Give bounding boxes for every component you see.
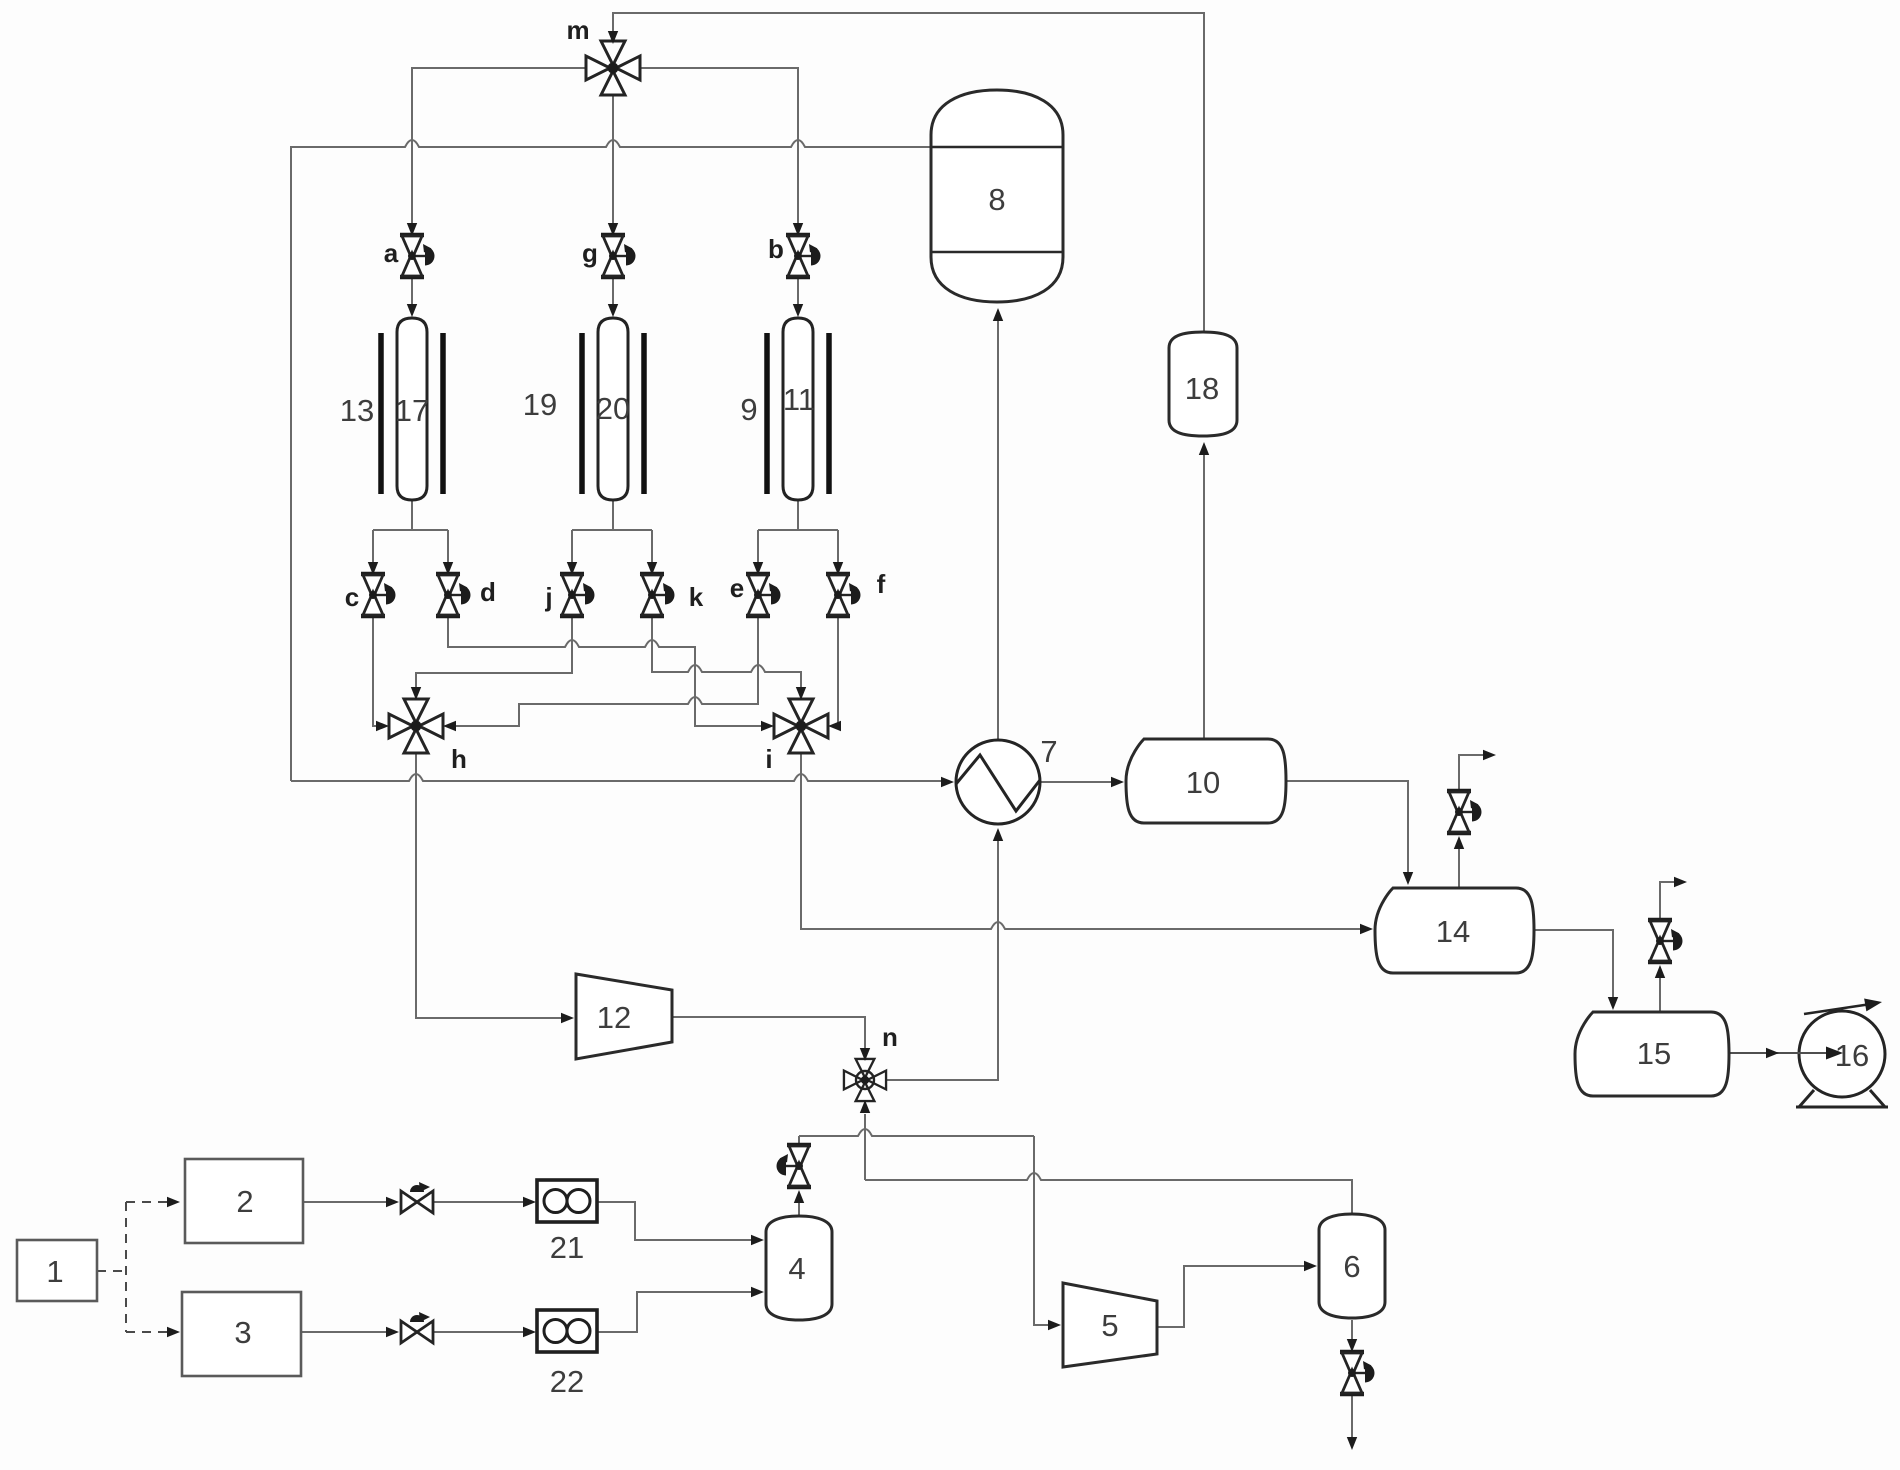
svg-text:7: 7	[1040, 734, 1057, 769]
wire: valve f to 4-way valve i right port	[838, 616, 840, 726]
arrow into valve b	[793, 223, 803, 236]
drain valve of vessel 6	[1340, 1352, 1375, 1394]
globe valve on line 3	[401, 1312, 433, 1343]
valve e	[746, 574, 781, 616]
vent valve on vessel 14	[1447, 791, 1482, 833]
arrow into valve n top	[860, 1048, 870, 1061]
svg-text:m: m	[566, 15, 589, 45]
wire: valve m right port to branch b corner	[640, 68, 798, 223]
wire: bypass line to vessel 6	[865, 1173, 1352, 1214]
arrow into globe valve of line 3	[386, 1327, 399, 1337]
box 1	[17, 1240, 97, 1301]
reactor 11 with heater 9	[767, 318, 829, 500]
wire: vessel 14 to vessel 15	[1534, 930, 1613, 998]
wire: compressor 12 outlet to valve n top	[672, 1017, 865, 1048]
arrow into valve g	[608, 223, 618, 236]
wire: recycle line from vessel 18 top to valve m top	[613, 13, 1204, 332]
svg-text:15: 15	[1637, 1036, 1671, 1071]
svg-text:4: 4	[788, 1251, 805, 1286]
arrow into reactor 11	[793, 304, 803, 317]
wire: drain valve outlet	[1351, 1394, 1353, 1437]
arrows into vessel 4	[751, 1235, 764, 1245]
svg-text:2: 2	[236, 1184, 253, 1219]
wire: vessel 15 vent riser	[1659, 976, 1661, 1012]
compressor 5	[1063, 1283, 1157, 1367]
svg-text:19: 19	[523, 387, 557, 422]
4-way valve n	[844, 1059, 886, 1101]
wire: heat exchanger 7 top to vessel 8 bottom	[997, 320, 999, 741]
valve f	[826, 574, 861, 616]
svg-text:10: 10	[1186, 765, 1220, 800]
arrow into flow meter 21	[523, 1197, 536, 1207]
valve d	[436, 574, 471, 616]
4-way valve m	[586, 41, 640, 95]
arrow into vessel 14 left from valve i	[1360, 924, 1373, 934]
wire: valve c to 4-way valve h left port	[373, 616, 377, 726]
arrow into valve a	[407, 223, 417, 236]
wire: globe valve to flow meter 22	[433, 1331, 524, 1333]
wire: vessel 10 top to vessel 18 bottom	[1203, 453, 1205, 739]
dashed arrow into box 3	[167, 1327, 180, 1337]
compressor 12	[576, 974, 672, 1059]
arrow into vessel 18 bottom	[1199, 442, 1209, 455]
wire: valve n bottom stem	[864, 1114, 866, 1180]
svg-text:16: 16	[1835, 1038, 1869, 1073]
wire: flow meter 22 to vessel 4 lower inlet	[597, 1292, 752, 1332]
arrow into valve m top	[608, 31, 618, 44]
arrow into globe valve of line 2	[386, 1197, 399, 1207]
wire: globe valve to flow meter 21	[433, 1201, 524, 1203]
vent arrow of vessel 14	[1483, 750, 1496, 760]
arrow into heat exchanger 7 bottom	[993, 828, 1003, 841]
svg-text:g: g	[582, 238, 598, 268]
svg-text:22: 22	[550, 1364, 584, 1399]
vessel 6	[1319, 1214, 1385, 1318]
arrows into valves c d j k e f	[368, 562, 378, 575]
vent arrow of vessel 15	[1674, 877, 1687, 887]
arrow up into valve above vessel 4	[794, 1190, 804, 1203]
wire: vessel 14 vent outlet	[1459, 755, 1484, 791]
svg-text:9: 9	[740, 392, 757, 427]
4-way valve i	[774, 699, 828, 753]
svg-text:3: 3	[234, 1315, 251, 1350]
svg-text:6: 6	[1343, 1249, 1360, 1284]
vessel 14	[1375, 888, 1534, 973]
svg-text:b: b	[768, 234, 784, 264]
wire: box 3 to globe valve	[301, 1331, 387, 1333]
vent valve on vessel 15	[1648, 920, 1683, 962]
svg-text:8: 8	[988, 182, 1005, 217]
wire: valve n right port to heat exchanger 7 bottom	[886, 839, 998, 1080]
svg-text:20: 20	[596, 391, 630, 426]
flow meter 22	[537, 1310, 597, 1352]
arrow into valve n bottom	[860, 1100, 870, 1113]
arrow into reactor 20	[608, 304, 618, 317]
wire: box 2 to globe valve	[303, 1201, 387, 1203]
globe valve on line 2	[401, 1182, 433, 1213]
arrow into vessel 6 left	[1304, 1261, 1317, 1271]
svg-text:18: 18	[1185, 371, 1219, 406]
wire: vessel 4 outlet header	[799, 1129, 1034, 1136]
svg-text:f: f	[877, 569, 886, 599]
wire: valve j to 4-way valve h top port	[416, 616, 572, 687]
arrow into flow meter 22	[523, 1327, 536, 1337]
svg-text:h: h	[451, 744, 467, 774]
wire: 4-way valve h bottom to compressor 12	[416, 753, 562, 1018]
arrow into pump 16 center	[1796, 1052, 1830, 1054]
wire: valve b to reactor 11	[797, 277, 799, 305]
vessel 10	[1126, 739, 1286, 823]
arrow into reactor 17	[407, 304, 417, 317]
box 3	[182, 1292, 301, 1376]
wire: bottom manifold to heat exchanger 7	[291, 774, 941, 781]
box 2	[185, 1159, 303, 1243]
wire: reactor 20 bottom split to valves j and k	[572, 500, 652, 562]
4-way valve h	[389, 699, 443, 753]
arrow into vessel 10 left	[1111, 777, 1124, 787]
wire: 4-way valve i bottom to vessel 14	[801, 753, 1361, 929]
svg-text:a: a	[384, 238, 399, 268]
svg-text:11: 11	[783, 382, 815, 417]
arrow up into vessel 14 vent valve	[1454, 836, 1464, 849]
arrow into compressor 5	[1048, 1320, 1061, 1330]
arrows into valve h	[376, 721, 389, 731]
svg-text:17: 17	[395, 393, 429, 428]
wire: valve g to reactor 20	[612, 277, 614, 305]
vessel 4	[766, 1216, 832, 1320]
svg-text:21: 21	[550, 1230, 584, 1265]
svg-text:i: i	[765, 744, 772, 774]
wire: vessel 4 valve to header	[798, 1136, 800, 1145]
heat exchanger 7	[956, 740, 1040, 824]
wire: header down to compressor 5 inlet	[1034, 1136, 1049, 1325]
wire: valve a to reactor 17	[411, 277, 413, 305]
wire: vessel 15 vent outlet	[1660, 882, 1675, 920]
wire: valve k to 4-way valve i top port	[652, 616, 801, 687]
wire: valve m bottom stem to valve g	[612, 95, 614, 223]
wire: vessel 6 bottom to drain valve	[1351, 1320, 1353, 1340]
wire: vessel 4 top to its valve	[798, 1201, 800, 1216]
wire: reactor 17 bottom split to valves c and d	[373, 500, 448, 562]
dashed arrow into box 2	[167, 1197, 180, 1207]
svg-text:c: c	[345, 582, 359, 612]
wire: dashed links from box 1 to boxes 2 and 3	[97, 1202, 168, 1332]
wire: vessel 14 vent riser	[1458, 847, 1460, 888]
wire: reactor 11 bottom split to valves e and f	[758, 500, 838, 562]
flow meter 21	[537, 1180, 597, 1222]
vessel 15	[1575, 1012, 1729, 1096]
reactor 20 with heater 19	[582, 318, 644, 500]
svg-text:j: j	[544, 582, 552, 612]
wire: heat exchanger 7 to vessel 10	[1040, 781, 1113, 783]
valve g	[601, 235, 636, 277]
vessel 8	[931, 90, 1063, 302]
arrow into vessel 15 top	[1608, 997, 1618, 1010]
svg-text:5: 5	[1101, 1308, 1118, 1343]
svg-text:13: 13	[340, 393, 374, 428]
arrow up into vessel 15 vent valve	[1655, 965, 1665, 978]
svg-text:e: e	[730, 573, 744, 603]
valve j	[560, 574, 595, 616]
arrow into vessel 14 top from vessel 10	[1403, 872, 1413, 885]
pump 16	[1799, 1011, 1885, 1097]
valve c	[361, 574, 396, 616]
valve a	[400, 235, 435, 277]
arrow into heat exchanger 7 left	[941, 777, 954, 787]
svg-text:d: d	[480, 577, 496, 607]
wire: flow meter 21 to vessel 4 upper inlet	[597, 1202, 752, 1240]
wire: valve d to 4-way valve i left port	[448, 616, 762, 726]
svg-text:14: 14	[1436, 914, 1470, 949]
vessel 18	[1169, 332, 1237, 436]
valve k	[640, 574, 675, 616]
arrow on line to pump 16	[1766, 1048, 1779, 1058]
arrows into valve i	[761, 721, 774, 731]
waste arrow	[1347, 1437, 1357, 1450]
valve b	[786, 235, 821, 277]
svg-text:12: 12	[597, 1000, 631, 1035]
svg-text:n: n	[882, 1022, 898, 1052]
arrow into vessel 8 bottom	[993, 308, 1003, 321]
wire: vessel 15 to pump 16	[1729, 1052, 1840, 1054]
wire: valve m left port to branch a corner	[412, 68, 586, 223]
arrow into vessel 6 drain valve	[1347, 1339, 1357, 1352]
valve above vessel 4	[777, 1145, 812, 1187]
wire: feed manifold to vessel 8 with left downcomer	[291, 140, 931, 781]
arrow into compressor 12	[561, 1013, 574, 1023]
wire: valve e to 4-way valve h right port	[455, 616, 758, 726]
wire: compressor 5 outlet to vessel 6	[1157, 1266, 1305, 1327]
reactor 17 with heater 13	[381, 318, 443, 500]
svg-text:k: k	[689, 582, 704, 612]
svg-text:1: 1	[46, 1254, 63, 1289]
wire: vessel 10 right to vessel 14 top	[1286, 781, 1408, 872]
